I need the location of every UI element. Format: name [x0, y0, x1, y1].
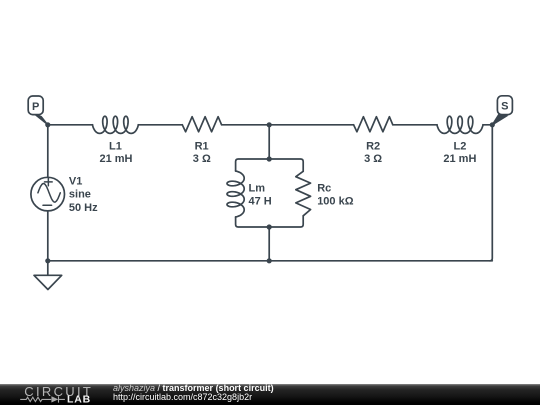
- footer bar: [0, 384, 540, 405]
- wire top left: P node to L1: [48, 124, 93, 126]
- wire L2 to S node: [483, 124, 492, 126]
- label Lm value 47 H: [249, 183, 272, 208]
- wire center node down to parallel section: [268, 125, 270, 159]
- svg-text:21 mH: 21 mH: [443, 153, 476, 165]
- label L1 value 21 mH: [99, 141, 132, 166]
- svg-text:3 Ω: 3 Ω: [364, 153, 382, 165]
- junction node parallel top: [267, 156, 272, 161]
- CircuitLab logo: [0, 384, 110, 405]
- junction node P: [45, 122, 50, 127]
- wire R2 to L2: [393, 124, 437, 126]
- inductor L1: [93, 116, 139, 133]
- resistor R2: [354, 117, 393, 132]
- label Rc value 100 kohm: [317, 183, 354, 208]
- svg-text:S: S: [501, 101, 508, 113]
- ground: [34, 261, 62, 290]
- inductor Lm: [227, 171, 244, 217]
- junction node bottom center: [267, 258, 272, 263]
- wire parallel bottom rail with rounded elbows: [236, 216, 304, 227]
- wire left vertical P node to V1: [47, 125, 49, 177]
- voltage source V1: [31, 177, 65, 211]
- svg-text:P: P: [32, 101, 39, 113]
- svg-text:sine: sine: [69, 189, 91, 201]
- label L2 value 21 mH: [443, 141, 476, 166]
- wire bottom rail: [48, 260, 493, 262]
- svg-text:L2: L2: [453, 141, 466, 153]
- label P: [32, 101, 39, 113]
- svg-text:100 kΩ: 100 kΩ: [317, 195, 354, 207]
- svg-text:50 Hz: 50 Hz: [69, 202, 98, 214]
- label R1 value 3 ohm: [193, 141, 211, 166]
- wire parallel top rail with rounded elbows: [236, 159, 304, 171]
- resistor R1: [182, 117, 221, 132]
- junction node S: [490, 122, 495, 127]
- svg-text:Lm: Lm: [249, 183, 266, 195]
- footer title text: [113, 384, 274, 403]
- junction node ground: [45, 258, 50, 263]
- wire R1 to center node: [222, 124, 270, 126]
- svg-text:R2: R2: [366, 141, 380, 153]
- svg-text:R1: R1: [195, 141, 209, 153]
- svg-text:Rc: Rc: [317, 183, 331, 195]
- wire right vertical S node down to bottom rail corner: [490, 125, 493, 261]
- label V1 sine 50 Hz: [69, 175, 98, 213]
- wire parallel section down to bottom rail: [268, 227, 270, 261]
- svg-text:V1: V1: [69, 175, 82, 187]
- junction node center top: [267, 122, 272, 127]
- label S: [501, 101, 508, 113]
- svg-text:21 mH: 21 mH: [99, 153, 132, 165]
- svg-text:L1: L1: [109, 141, 122, 153]
- inductor L2: [437, 116, 483, 133]
- junction node parallel bottom: [267, 224, 272, 229]
- wire V1 to bottom rail: [47, 212, 49, 261]
- svg-text:LAB: LAB: [67, 394, 91, 405]
- port P flag: [28, 96, 48, 125]
- resistor Rc: [296, 171, 311, 216]
- wire center node to R2: [269, 124, 353, 126]
- svg-text:47 H: 47 H: [249, 195, 272, 207]
- label R2 value 3 ohm: [364, 141, 382, 166]
- svg-text:3 Ω: 3 Ω: [193, 153, 211, 165]
- port S flag: [492, 96, 513, 125]
- wire L1 to R1: [138, 124, 182, 126]
